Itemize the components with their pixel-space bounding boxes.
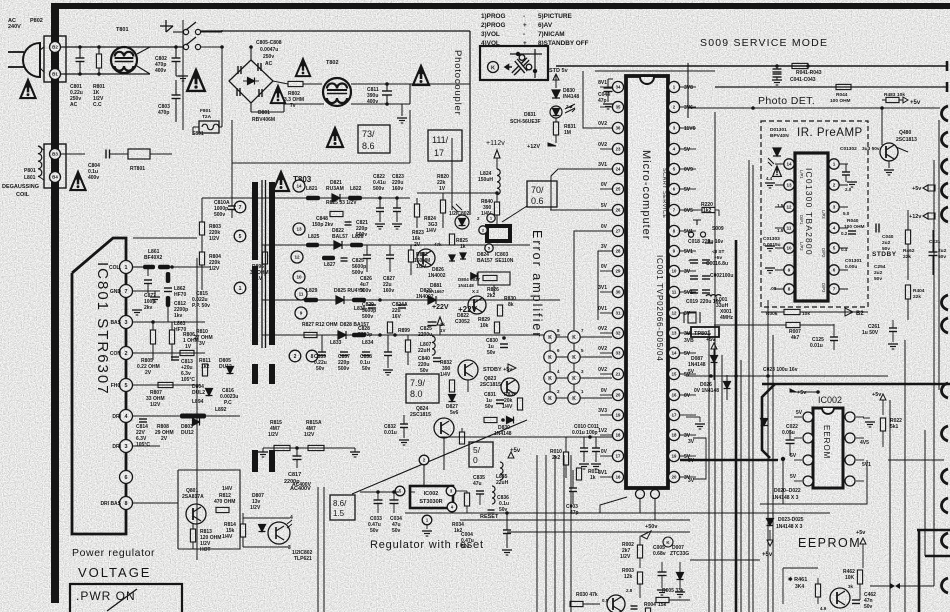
vertical wires micro bottom	[536, 455, 538, 612]
T803 core	[261, 180, 263, 348]
wire matrix to pins	[580, 336, 612, 338]
K matrix wires	[549, 337, 551, 398]
callout 73/8.6	[358, 125, 390, 153]
wire down right of photocoupler box	[469, 31, 471, 215]
resistor R812	[216, 507, 229, 512]
capacitor C823	[393, 207, 401, 209]
capacitor C802	[150, 46, 176, 48]
EEPROM right pins	[845, 412, 855, 422]
remote key box	[480, 46, 548, 80]
switch S801 upper	[182, 20, 184, 130]
IC01300 block	[795, 153, 828, 301]
reset box pins	[419, 455, 429, 465]
zener D827	[449, 395, 456, 402]
wire eeprom bottom	[783, 567, 818, 569]
wire top of R803	[202, 197, 410, 199]
thermistor RT801	[128, 149, 150, 159]
wire CON pin	[133, 352, 205, 354]
resistor small row	[484, 417, 497, 422]
degaussing coil	[38, 146, 42, 176]
box around Q801 cell	[178, 470, 240, 549]
diode D830b	[507, 417, 514, 424]
wire bridge bottom rail	[250, 103, 252, 112]
rail3 wire	[262, 299, 560, 301]
PWR ON diagonal	[107, 589, 137, 611]
capacitor C bottom	[658, 571, 667, 573]
capacitor C837	[340, 351, 348, 353]
callout 5/0	[469, 442, 493, 467]
inductor L827	[322, 256, 335, 261]
micro bottom pins	[636, 490, 645, 499]
resistor R802	[288, 81, 303, 86]
wire R815 row	[263, 447, 355, 449]
transistor Q eeprom	[830, 588, 850, 608]
capacitor C822	[376, 207, 384, 209]
inductor L861	[143, 265, 155, 270]
capacitor C801	[76, 57, 85, 59]
rail1 components	[306, 196, 320, 201]
capacitors C041-C043	[773, 68, 782, 70]
arrow B2 right	[845, 308, 853, 316]
resistor R801	[96, 54, 101, 68]
inductor L835	[500, 462, 503, 480]
connector P801	[44, 144, 66, 188]
IC002 reset box	[410, 486, 453, 508]
connector arcs right edge	[941, 106, 948, 121]
wire switch to top rail	[200, 31, 222, 33]
rail2 wire	[262, 244, 530, 246]
grounds on left pins	[765, 182, 775, 184]
resistor bottom left	[240, 524, 245, 537]
IC01300 right pins	[829, 159, 839, 169]
thick wire y459	[680, 459, 778, 462]
box around eeprom area	[783, 460, 867, 504]
transistor Q bottom	[607, 595, 625, 612]
wire rail2	[715, 86, 947, 88]
wire DRI2 pin	[133, 445, 160, 447]
IC801 block outline	[72, 238, 126, 534]
ground right pin	[863, 417, 870, 419]
capacitor C0x	[848, 230, 856, 232]
capacitor C803	[172, 94, 181, 96]
diode bridge D801	[229, 60, 273, 103]
wires primary loop	[232, 162, 410, 164]
ground reset IC	[426, 525, 428, 529]
wire bridge to T802	[273, 81, 288, 84]
callout leader line	[502, 206, 527, 222]
resistor R006 below IR box	[784, 309, 800, 314]
wire rail4	[440, 436, 612, 438]
resistor R820	[440, 200, 445, 213]
opto transistor IC802	[268, 522, 290, 544]
junction arrows mid right	[890, 583, 900, 589]
wire BAS pin	[133, 321, 205, 323]
warning triangle above T802	[413, 66, 429, 85]
capacitor C01302	[842, 171, 850, 173]
wire pin 0V2 corner	[583, 71, 612, 128]
border frame left bar	[51, 3, 59, 603]
wire pin13 to bus	[686, 333, 711, 335]
wire into reset box	[360, 491, 399, 493]
zener D bottom	[677, 573, 684, 580]
callout 111/17	[428, 130, 462, 161]
ground pin7	[150, 296, 160, 298]
resistor R041-R043	[792, 63, 808, 68]
wire pin 3V1 down	[551, 169, 612, 210]
T803 lower winding B	[252, 450, 258, 472]
ground pin17	[686, 416, 700, 418]
rail4 wire	[262, 334, 560, 336]
terminal bars right edge	[946, 61, 949, 71]
PWR ON box	[70, 584, 182, 612]
capacitor C817	[293, 455, 302, 457]
transistor Q stdby	[458, 360, 478, 380]
resistor R831	[553, 122, 558, 135]
resistor R462	[905, 230, 910, 244]
diagonal wire to regulator	[352, 420, 527, 494]
resistor R044	[836, 84, 851, 89]
inductor L892	[180, 414, 206, 419]
warning triangle right of bridge	[296, 59, 310, 76]
warning small triangle under photodiode	[773, 166, 782, 176]
T803 lower winding A	[252, 364, 258, 384]
micro top rail wires	[556, 65, 947, 67]
micro left pins	[612, 81, 623, 92]
IC01300 left pins	[784, 159, 794, 169]
horizontal reset wires	[405, 512, 830, 514]
wire box down	[493, 285, 495, 294]
micro pin stub wires right	[680, 86, 696, 88]
bracket pins 18-20	[693, 438, 706, 479]
resistor R815	[274, 445, 290, 450]
capacitor C877	[147, 267, 149, 276]
wire C023 rail	[686, 375, 888, 377]
wire bottom h1	[690, 559, 760, 561]
warning triangle below R802	[271, 86, 285, 103]
resistor R462b	[857, 570, 862, 584]
+5v below diodes	[767, 540, 773, 546]
capacitor C812	[164, 287, 172, 289]
capacitor C811	[382, 90, 392, 92]
wire std5v down	[555, 75, 557, 88]
ground C811	[401, 104, 403, 116]
micro bottom wires	[600, 497, 627, 513]
pin stub wires IC01300	[775, 163, 784, 165]
inductor L862	[166, 272, 171, 283]
capacitor C838	[362, 351, 370, 353]
resistor R806 net	[150, 330, 155, 344]
T803 secondary winding	[269, 182, 275, 345]
resistor R815A	[308, 445, 324, 450]
resistor R807	[158, 382, 173, 387]
IR arrows to LED	[565, 104, 575, 113]
micro-computer block IC001	[626, 76, 668, 488]
T803 primary winding	[252, 182, 258, 260]
resistor R404	[905, 285, 910, 299]
LED D831	[550, 106, 562, 118]
IC801 pins	[120, 261, 133, 274]
wire rail3	[688, 107, 940, 109]
capacitor C034	[390, 499, 399, 501]
capacitor C033	[374, 499, 383, 501]
diode D830	[552, 90, 560, 98]
diode D023-D025	[767, 519, 774, 526]
thick bus bend	[762, 384, 775, 458]
EEPROM IC block	[813, 408, 843, 488]
capacitor C836b	[384, 351, 392, 353]
transistor Q error	[417, 249, 435, 267]
switch S801 lower	[183, 44, 188, 49]
left rail verticals	[231, 120, 233, 206]
wire DRI pin	[133, 415, 180, 417]
callout 8.6/1.5	[330, 495, 355, 520]
wire L line	[61, 46, 183, 48]
T803 side pins	[234, 201, 246, 213]
ground C877	[132, 309, 142, 311]
capacitor C839	[318, 351, 326, 353]
resistor R826 box	[478, 272, 510, 285]
wire T802 to C811	[351, 83, 470, 85]
resistor R823	[414, 204, 419, 217]
inductor L863	[166, 296, 171, 307]
error amp IC black box	[487, 226, 510, 241]
warning triangle below T802	[327, 128, 343, 147]
diode D829	[428, 296, 436, 304]
grounds R815 row	[258, 451, 268, 453]
capacitor C231	[929, 251, 938, 253]
thick corner bottom right	[917, 529, 950, 532]
switch S009	[688, 220, 705, 237]
capacitor C826	[363, 254, 371, 256]
resistor R813	[190, 529, 195, 542]
wire junction 112v	[496, 194, 498, 202]
resistor R804	[199, 252, 204, 265]
resistor R896	[262, 252, 267, 264]
wire y193	[417, 192, 497, 194]
small diodes pair	[449, 255, 455, 261]
top rail wire	[200, 30, 470, 32]
micro right pins	[668, 81, 679, 92]
wire GND pin	[133, 290, 160, 292]
K buttons	[544, 331, 556, 343]
capacitor C underQ	[631, 605, 638, 607]
resistor R483	[886, 97, 899, 102]
bus vertical lines right of micro	[708, 330, 710, 612]
wire FHC pin	[133, 384, 200, 386]
wire pin COL	[133, 266, 143, 268]
wire N line	[61, 73, 150, 75]
resistor R010	[563, 452, 568, 465]
wires opto	[243, 517, 290, 519]
wire DRIBAS pin	[133, 502, 178, 504]
resistor R803	[199, 222, 204, 235]
testpoint TP801	[691, 327, 719, 337]
zener on bus	[761, 419, 768, 426]
wire photocoupler pair	[451, 138, 453, 210]
warning triangle degauss	[70, 172, 85, 190]
border frame top	[51, 3, 950, 9]
wire bottom right pair	[933, 390, 935, 586]
warning triangle T803	[273, 172, 289, 191]
IR preamp dashed box	[761, 121, 868, 307]
resistor R022	[880, 418, 885, 431]
resistor R011	[576, 468, 581, 480]
wire under T802 zone	[409, 110, 411, 163]
capacitors C010 C011	[580, 447, 588, 449]
wire Q824 down	[443, 438, 445, 470]
capacitor C040	[875, 224, 877, 233]
vertical wires x318	[317, 487, 319, 612]
capacitor C827	[386, 254, 394, 256]
wires pins left micro going down	[550, 209, 612, 211]
callout 70/0.6	[527, 181, 557, 207]
resistor R827	[304, 332, 317, 337]
photocoupler LED right	[455, 215, 469, 229]
wire T803 left connections	[133, 237, 197, 239]
warning triangle mains	[20, 80, 35, 98]
bus vertical far right	[933, 160, 935, 390]
resistor R822	[408, 250, 413, 262]
ground after C802	[175, 68, 177, 76]
thick bus wire y384	[762, 383, 950, 386]
warning triangle near switch	[187, 70, 205, 91]
EEPROM left pins	[803, 412, 813, 422]
AC plug	[23, 43, 40, 77]
resistor R810	[180, 350, 194, 355]
resistor R840	[494, 202, 499, 215]
resistor R9x	[459, 432, 464, 444]
callout 7.9/8.0	[406, 374, 439, 403]
resistor R828	[405, 340, 410, 352]
wire rail1 stub	[687, 63, 689, 66]
diode right of box	[471, 273, 477, 279]
wire r007 rail	[714, 324, 786, 326]
micro pin stub wires left	[600, 86, 612, 88]
